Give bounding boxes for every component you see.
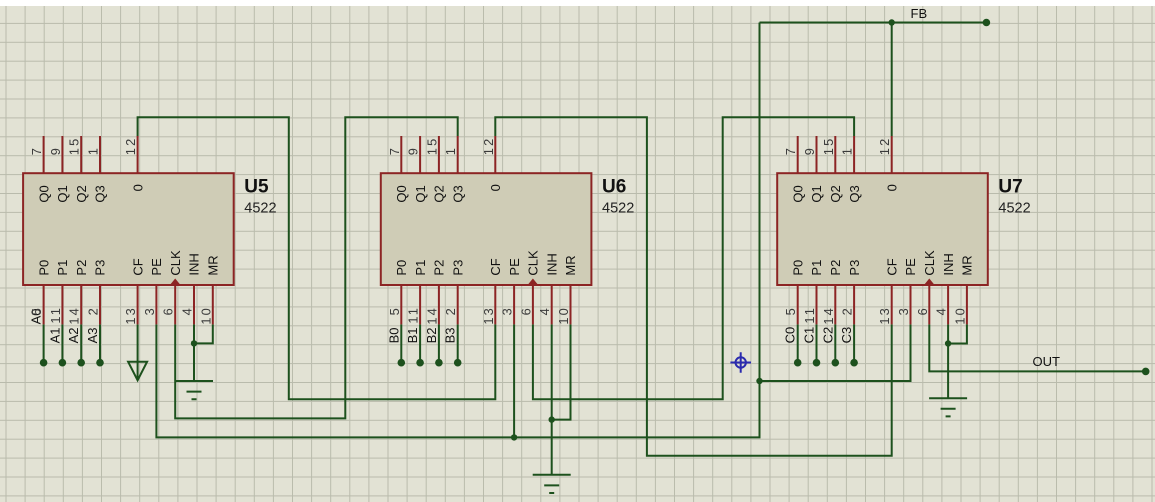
svg-text:C2: C2 xyxy=(820,327,835,344)
wire input terminal B1 to P1 xyxy=(419,324,421,362)
wire input terminal B2 to P2 xyxy=(438,324,440,362)
junction U5 INH/MR xyxy=(191,340,197,346)
ground symbol at U5 xyxy=(175,381,213,399)
wire input terminal B3 to P3 xyxy=(457,324,459,362)
terminal dot C2 xyxy=(832,359,840,367)
wire input terminal A0 to P0 xyxy=(43,324,45,362)
terminal dot B3 xyxy=(454,359,462,367)
svg-text:A1: A1 xyxy=(47,327,62,343)
wire input terminal B0 to P0 xyxy=(400,324,402,362)
junction U6 INH/MR xyxy=(549,416,555,422)
svg-text:B0: B0 xyxy=(386,327,401,343)
terminal dot A3 xyxy=(96,359,104,367)
wire input terminal C3 to P3 xyxy=(853,324,855,362)
terminal dot B1 xyxy=(416,359,424,367)
wire branch U6 pin3 PE xyxy=(513,324,515,437)
terminal dot B2 xyxy=(435,359,443,367)
terminal dot C3 xyxy=(850,359,858,367)
svg-text:C3: C3 xyxy=(839,327,854,344)
svg-text:B2: B2 xyxy=(424,327,439,343)
svg-text:C0: C0 xyxy=(783,327,798,344)
terminal dot B0 xyxy=(398,359,406,367)
terminal dot node OUT xyxy=(1142,368,1150,376)
wire U5 pin13 CF down to input terminal xyxy=(137,324,139,380)
wire U7 INH(4)+MR(10) tie to ground xyxy=(948,324,967,398)
svg-text:B3: B3 xyxy=(443,327,458,343)
svg-text:A2: A2 xyxy=(66,327,81,343)
blue origin marker xyxy=(730,352,751,373)
terminal dot A0 xyxy=(40,359,48,367)
wire input terminal C1 to P1 xyxy=(816,324,818,362)
wire U7 pin6 CLK to OUT terminal xyxy=(929,324,1145,371)
svg-text:U6: U6 xyxy=(602,177,626,198)
svg-text:A3: A3 xyxy=(85,327,100,343)
svg-text:4522: 4522 xyxy=(602,201,634,217)
wire U5 pin12 (0 output) to U6 pin13 CF xyxy=(138,117,496,399)
wire U6 INH(4)+MR(10) tie to ground xyxy=(552,324,571,474)
IC U7 4522 xyxy=(777,136,988,325)
wire input terminal A3 to P3 xyxy=(99,324,101,362)
terminal dot C1 xyxy=(813,359,821,367)
ground symbol at U7 xyxy=(929,398,967,416)
IC U6 4522 xyxy=(381,136,592,325)
svg-text:4522: 4522 xyxy=(998,201,1030,217)
terminal dot C0 xyxy=(794,359,802,367)
svg-text:U5: U5 xyxy=(244,177,269,198)
wire U7 Q3 (pin1) to U6 pin6 CLK xyxy=(533,117,854,399)
terminal dot node FB xyxy=(983,19,991,27)
wire input terminal C2 to P2 xyxy=(834,324,836,362)
wire U7 pin12 (0 output) up to FB node xyxy=(891,23,893,137)
ground symbol at U6 xyxy=(533,475,571,493)
svg-text:FB: FB xyxy=(911,6,928,21)
input terminal arrow at U5 CF xyxy=(128,362,147,381)
svg-text:C1: C1 xyxy=(802,327,817,344)
terminal dot A1 xyxy=(59,359,67,367)
svg-text:U7: U7 xyxy=(998,177,1022,198)
wire FB vertical down and PE bus to U5 pin3 PE xyxy=(156,23,759,438)
junction FB vertical / U7 PE branch xyxy=(756,378,762,384)
junction U7 INH/MR xyxy=(945,340,951,346)
wire FB horizontal to terminal xyxy=(760,22,987,24)
svg-text:OUT: OUT xyxy=(1033,354,1061,369)
junction FB / U7 pin12 xyxy=(889,19,895,25)
junction PE bus / U6 PE branch xyxy=(511,434,517,440)
wire input terminal C0 to P0 xyxy=(797,324,799,362)
wire U5 INH(4)+MR(10) tie to ground xyxy=(194,324,213,381)
wire U6 Q3 (pin1) to U5 pin6 CLK xyxy=(175,117,458,418)
wire input terminal A2 to P2 xyxy=(80,324,82,362)
terminal dot A2 xyxy=(77,359,85,367)
wire branch U7 pin3 PE xyxy=(760,324,911,381)
wire input terminal A1 to P1 xyxy=(61,324,63,362)
svg-text:B1: B1 xyxy=(405,327,420,343)
wire U6 pin12 (0 output) to U7 pin13 CF xyxy=(495,117,891,456)
svg-text:4522: 4522 xyxy=(244,201,276,217)
IC U5 4522 xyxy=(23,136,234,325)
